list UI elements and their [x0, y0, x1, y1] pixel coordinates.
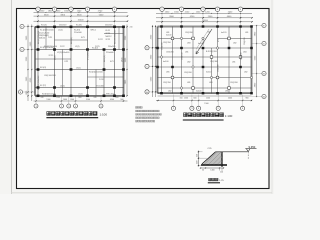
svg-text:50: 50 [202, 169, 204, 171]
svg-text:KL13(2)250x500: KL13(2)250x500 [38, 76, 40, 90]
paper edge left [11, 0, 13, 194]
svg-text:600: 600 [193, 98, 196, 100]
left plan: left dimension lines [27, 25, 29, 102]
svg-text:LB1: LB1 [232, 62, 235, 64]
svg-text:KL6(3)250x500: KL6(3)250x500 [89, 72, 104, 74]
right plan: left dimension lines [152, 25, 154, 97]
svg-text:2C22: 2C22 [60, 46, 65, 48]
svg-text:1100: 1100 [56, 97, 60, 99]
svg-text:N4C12: N4C12 [106, 36, 112, 38]
svg-text:KL11: KL11 [106, 30, 110, 32]
svg-text:LB5: LB5 [166, 72, 169, 74]
svg-text:1:100: 1:100 [225, 114, 233, 118]
left plan: bottom axis bubbles [34, 104, 38, 108]
svg-text:LT1: LT1 [218, 39, 220, 42]
svg-text:C8@150: C8@150 [182, 53, 184, 61]
svg-text:L6(2): L6(2) [55, 55, 57, 60]
svg-text:L2(2)200x400: L2(2)200x400 [57, 52, 70, 54]
right plan: interior beams vertical [161, 27, 163, 94]
detail: top flange line [216, 151, 248, 153]
drawing frame [17, 9, 270, 189]
svg-text:C8@150: C8@150 [163, 42, 171, 44]
right plan: bottom dimension line [156, 100, 252, 102]
svg-text:LB3: LB3 [209, 82, 212, 84]
right plan: circle symbols [180, 37, 182, 39]
svg-text:L4(2): L4(2) [60, 85, 65, 87]
left plan: top axis bubbles [36, 7, 40, 11]
detail: haunch hatching [197, 150, 213, 166]
svg-text:600: 600 [116, 97, 119, 99]
left plan: top axis leaders [37, 11, 39, 26]
left plan title [47, 112, 97, 116]
svg-text:240: 240 [130, 27, 133, 29]
svg-text:C8@200: C8@200 [185, 32, 193, 34]
svg-text:C8@200: C8@200 [230, 82, 238, 84]
svg-text:WKL2(2): WKL2(2) [106, 94, 114, 96]
svg-text:5100: 5100 [86, 99, 90, 101]
notes block [136, 106, 143, 108]
svg-text:13200: 13200 [202, 20, 209, 22]
svg-text:250x600: 250x600 [106, 52, 115, 54]
detail: haunch slope [202, 152, 216, 164]
right plan: right axis bubbles [252, 25, 262, 27]
svg-text:1400: 1400 [210, 169, 214, 171]
svg-text:250x500: 250x500 [59, 25, 66, 27]
right plan: interior beams horizontal [158, 37, 194, 39]
svg-text:1300: 1300 [70, 99, 74, 101]
svg-text:LB2: LB2 [207, 32, 210, 34]
svg-text:L2(2): L2(2) [75, 46, 80, 48]
right plan: columns [160, 25, 163, 27]
left plan title underline [46, 117, 98, 119]
left plan: top dimension lines [34, 11, 128, 13]
right plan: bottom axis bubbles [171, 106, 175, 110]
svg-text:C8@200: C8@200 [166, 52, 174, 54]
svg-text:KL7(2): KL7(2) [40, 85, 46, 87]
svg-text:LB2: LB2 [244, 72, 247, 74]
left plan: bottom dimension line [34, 100, 128, 102]
detail: left dimension line [198, 151, 200, 167]
svg-text:WKL1: WKL1 [91, 30, 97, 32]
svg-text:1:100: 1:100 [100, 113, 108, 117]
svg-text:B:XC8@200: B:XC8@200 [206, 51, 217, 53]
right plan: left axis bubbles [149, 47, 157, 49]
right plan title underline [183, 119, 224, 121]
left plan: left axis bubbles [24, 26, 35, 28]
svg-text:KL10(2): KL10(2) [71, 37, 73, 44]
svg-text:h=100: h=100 [196, 91, 201, 93]
svg-text:C8@150: C8@150 [163, 82, 171, 84]
svg-text:KL8(3)250x500: KL8(3)250x500 [42, 93, 57, 95]
left plan: columns [37, 26, 40, 29]
svg-text:L5(2): L5(2) [78, 94, 83, 96]
detail: bottom dimension line [201, 167, 224, 169]
svg-text:KL3(3)250x500: KL3(3)250x500 [40, 47, 55, 49]
svg-text:LB2: LB2 [187, 62, 190, 64]
svg-text:900: 900 [245, 98, 248, 100]
left plan: bottom axis leaders [35, 97, 37, 104]
page background [0, 0, 274, 194]
right plan: top axis bubbles [160, 7, 164, 11]
svg-text:120: 120 [220, 171, 223, 173]
svg-text:h=110: h=110 [206, 72, 211, 74]
svg-text:L1(2): L1(2) [58, 29, 63, 31]
detail: level mark triangle [246, 149, 250, 152]
left plan: interior beams horizontal [35, 49, 124, 51]
svg-text:2C22: 2C22 [106, 39, 111, 41]
right plan title [184, 113, 224, 117]
svg-text:250x500: 250x500 [74, 32, 83, 34]
detail: slab bottom chord [201, 164, 227, 166]
svg-text:L8(2): L8(2) [121, 57, 123, 62]
right plan: top axis leaders [161, 11, 163, 26]
svg-text:L3(1): L3(1) [76, 67, 81, 69]
svg-text:C8@180: C8@180 [241, 53, 243, 61]
paper edge bottom [12, 192, 273, 194]
right plan: top dimension lines [156, 12, 252, 14]
svg-text:LB1: LB1 [187, 82, 190, 84]
left plan: perimeter beams [35, 25, 124, 27]
svg-text:h=100: h=100 [163, 61, 168, 63]
svg-text:LB1: LB1 [225, 91, 228, 93]
svg-text:C8@200: C8@200 [244, 38, 246, 46]
svg-text:LB1: LB1 [185, 52, 188, 54]
svg-text:LB2: LB2 [168, 91, 171, 93]
svg-text:250x500: 250x500 [108, 46, 115, 48]
detail: level mark bar [245, 148, 256, 150]
svg-text:LB3: LB3 [187, 43, 190, 45]
svg-text:9.350: 9.350 [249, 145, 256, 149]
svg-text:C8@100/200: C8@100/200 [44, 75, 57, 77]
svg-text:C8@180: C8@180 [210, 61, 218, 63]
svg-text:h=120: h=120 [221, 32, 226, 34]
svg-text:1400: 1400 [63, 99, 67, 101]
right plan: right dimension line [256, 25, 258, 97]
svg-text:5100: 5100 [46, 99, 50, 101]
svg-text:150: 150 [179, 98, 182, 100]
svg-text:KL1(3)250x500: KL1(3)250x500 [40, 30, 55, 32]
right plan: perimeter beams [158, 25, 252, 27]
left plan: secondary beams [55, 39, 88, 41]
svg-text:KL5(3): KL5(3) [40, 67, 46, 69]
svg-text:900: 900 [120, 99, 123, 101]
svg-text:C8@200: C8@200 [162, 43, 164, 51]
svg-text:KL1(3): KL1(3) [41, 25, 47, 27]
svg-text:350: 350 [197, 154, 199, 157]
svg-text:L7(1)200x300: L7(1)200x300 [88, 48, 90, 60]
svg-text:KL4(2): KL4(2) [92, 47, 98, 49]
right plan: bottom axis leaders [173, 95, 175, 107]
detail: beam web vertical [221, 152, 223, 167]
svg-text:1200: 1200 [206, 98, 210, 100]
left plan: right dimension line [126, 25, 128, 97]
svg-text:240: 240 [94, 97, 97, 99]
svg-text:15000: 15000 [78, 20, 85, 22]
svg-text:KL2(3): KL2(3) [76, 25, 82, 27]
detail title underline [208, 182, 220, 184]
svg-text:KL12(2)250x500: KL12(2)250x500 [115, 30, 117, 44]
svg-text:4500: 4500 [110, 99, 114, 101]
svg-text:400: 400 [197, 161, 199, 164]
detail: bottom leader [221, 168, 223, 171]
paper edge right [271, 0, 273, 194]
svg-text:C8@200: C8@200 [184, 72, 192, 74]
detail: level mark tail [247, 152, 249, 160]
svg-text:C8@200: C8@200 [218, 65, 220, 73]
svg-text:C8@200: C8@200 [203, 39, 205, 47]
svg-text:800: 800 [79, 97, 82, 99]
svg-text:240: 240 [41, 97, 44, 99]
svg-text:LB2: LB2 [233, 43, 236, 45]
svg-text:KL9(2)250x500: KL9(2)250x500 [38, 31, 40, 44]
left plan: interior beams vertical [37, 27, 39, 96]
right plan: stair diagonal [196, 29, 212, 54]
detail title [209, 178, 219, 181]
svg-text:250x400: 250x400 [96, 85, 105, 87]
svg-text:h=100: h=100 [166, 35, 171, 37]
right plan: stair arrowhead [196, 51, 199, 54]
svg-text:250x500: 250x500 [105, 25, 112, 27]
svg-text:LB1: LB1 [245, 32, 248, 34]
svg-text:1500: 1500 [204, 103, 208, 105]
svg-text:2400: 2400 [228, 98, 232, 100]
right plan: hollow column symbols [171, 37, 174, 40]
svg-text:2C25: 2C25 [106, 33, 111, 35]
svg-text:1500: 1500 [184, 98, 188, 100]
svg-text:KL11(2): KL11(2) [104, 55, 106, 62]
